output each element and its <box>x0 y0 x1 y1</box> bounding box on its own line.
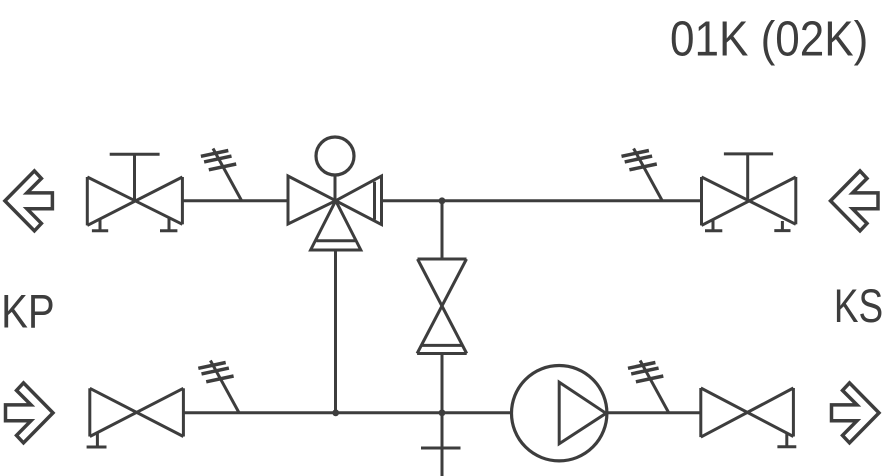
valve V4 bottom-left shutoff <box>87 388 184 447</box>
svg-text:KP: KP <box>1 286 55 339</box>
pump P1 <box>512 366 607 461</box>
arrow KS bottom-right (points right) <box>832 383 880 443</box>
valve V5 bottom-right shutoff <box>701 388 797 447</box>
wire bypass lower <box>441 354 444 413</box>
wire bottom pipe left segment <box>183 411 511 414</box>
valve V2 top-right shutoff with T-handle <box>702 154 796 231</box>
svg-text:KS: KS <box>834 280 882 332</box>
label KP <box>1 286 55 339</box>
svg-text:01K (02K): 01K (02K) <box>670 11 868 66</box>
wire 3-way valve bottom stem <box>334 250 337 413</box>
title 01K (02K) <box>670 11 868 66</box>
arrow KP bottom-left (points right) <box>6 383 54 443</box>
sensor T3 bottom-left measuring point <box>198 361 239 413</box>
drain tick <box>421 447 461 450</box>
wire top pipe right segment <box>382 199 702 202</box>
wire top pipe left segment <box>182 199 288 202</box>
wire bottom pipe right segment <box>607 411 701 414</box>
valve V1 top-left shutoff with T-handle <box>87 154 182 231</box>
wire bypass upper <box>441 201 444 259</box>
valve U1 three-way mixing valve with actuator <box>288 137 382 250</box>
node junction bottom left <box>332 409 339 416</box>
label KS <box>834 280 882 332</box>
arrow KS top-right (points left) <box>831 171 879 231</box>
wire drain <box>441 413 444 476</box>
arrow KP top-left (points left) <box>5 171 53 231</box>
sensor T2 top-right measuring point <box>622 149 663 201</box>
node junction top <box>439 197 446 204</box>
sensor T1 top-left measuring point <box>201 149 242 201</box>
valve V3 bypass balancing valve (vertical) <box>417 259 467 354</box>
node junction bottom right <box>439 409 446 416</box>
sensor T4 bottom-right measuring point <box>628 361 669 413</box>
